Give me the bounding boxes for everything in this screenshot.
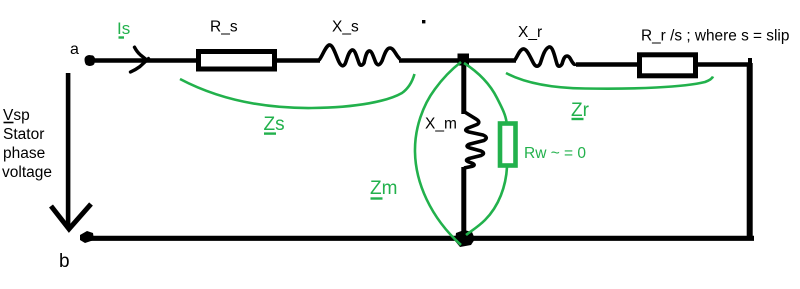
wire R_r to top-right corner <box>698 62 750 67</box>
resistor Rw <box>500 124 516 166</box>
node b dot <box>80 231 94 243</box>
resistor R_s <box>199 52 275 70</box>
svg-text:b: b <box>59 251 70 272</box>
node a dot <box>85 55 96 66</box>
svg-text:Rw ~ = 0: Rw ~ = 0 <box>524 145 586 162</box>
wire X_s to junction <box>399 58 460 63</box>
svg-text:R_r /s ; where s = slip: R_r /s ; where s = slip <box>641 28 789 45</box>
svg-text:a: a <box>70 41 79 58</box>
wire X_r to R_r <box>576 62 639 67</box>
inductor X_r <box>514 47 576 66</box>
svg-text:Stator: Stator <box>3 126 44 143</box>
svg-text:X_r: X_r <box>518 24 542 41</box>
svg-text:Is: Is <box>117 19 130 38</box>
wire a to R_s <box>88 58 198 63</box>
svg-text:Zm: Zm <box>370 178 397 199</box>
Zm loop right side lower <box>466 167 507 235</box>
left vertical wire <box>66 73 71 227</box>
wire junction to X_r <box>466 58 516 63</box>
label Zs <box>264 114 285 135</box>
middle vertical wire lower <box>461 167 466 240</box>
Zs brace <box>180 74 415 108</box>
svg-text:voltage: voltage <box>2 164 52 181</box>
Zr brace <box>506 73 713 89</box>
arrowhead Vsp <box>51 204 91 229</box>
svg-text:Zs: Zs <box>264 114 285 135</box>
current arrow Is <box>131 47 149 72</box>
inductor X_m <box>463 111 486 168</box>
Zm loop left side <box>415 62 461 245</box>
junction node bottom <box>455 230 475 247</box>
inductor X_s <box>319 45 400 66</box>
right vertical wire <box>747 63 753 238</box>
label Vsp <box>2 107 52 181</box>
Zm loop right side upper <box>464 63 507 122</box>
junction node top <box>458 54 470 66</box>
svg-text:R_s: R_s <box>210 19 238 36</box>
resistor R_r/s <box>640 55 696 76</box>
label Zr <box>571 100 590 121</box>
stray dot <box>422 20 425 23</box>
bottom wire <box>90 236 754 241</box>
svg-text:X_s: X_s <box>332 19 359 36</box>
svg-text:phase: phase <box>3 145 45 162</box>
label Zm <box>370 178 397 199</box>
svg-text:Vsp: Vsp <box>3 107 30 124</box>
middle vertical wire upper <box>461 62 466 114</box>
wire R_s to X_s <box>276 58 320 63</box>
corner stub tick <box>748 58 752 66</box>
label Is <box>117 19 130 38</box>
svg-text:X_m: X_m <box>425 116 457 133</box>
